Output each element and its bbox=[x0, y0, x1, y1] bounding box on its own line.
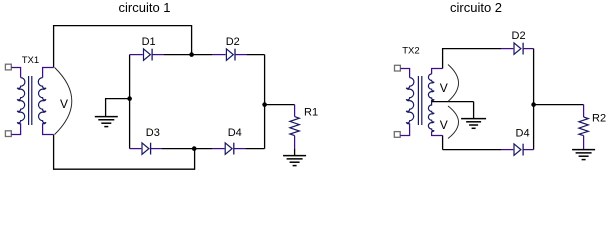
wire bottom rail c2 bbox=[442, 136, 444, 150]
diode D2 bbox=[212, 49, 247, 61]
wire TX1 secondary top pin bbox=[43, 68, 54, 78]
transformer TX2 bottom terminal bbox=[394, 132, 400, 138]
resistor R2 bbox=[579, 105, 588, 150]
node output c2 bbox=[531, 102, 536, 107]
node left (ground tap) bbox=[127, 96, 132, 101]
transformer TX1 bottom terminal bbox=[5, 131, 11, 137]
ground GND1 (bridge) bbox=[95, 117, 118, 127]
voltmeter V (circuit 1) arc bbox=[55, 68, 72, 135]
voltmeter V top (circuit 2) arc bbox=[448, 65, 459, 102]
transformer TX2 secondary top winding bbox=[428, 74, 434, 102]
wire to R2 bbox=[534, 104, 584, 106]
ground GND2 (under R1) bbox=[283, 149, 306, 166]
diode D3 bbox=[130, 143, 162, 155]
transformer TX1 core bbox=[28, 76, 30, 125]
svg-text:D2: D2 bbox=[226, 36, 240, 48]
svg-text:D3: D3 bbox=[146, 127, 160, 139]
resistor R1 bbox=[290, 105, 299, 149]
node bottom (AC input) bbox=[192, 146, 197, 151]
wire TX2 secondary top pin bbox=[432, 69, 443, 75]
svg-text:D2: D2 bbox=[512, 30, 526, 42]
transformer TX1 top terminal bbox=[5, 64, 11, 70]
wire bridge right vertical bbox=[264, 55, 266, 149]
transformer TX2 primary coil bbox=[406, 78, 414, 124]
svg-text:TX1: TX1 bbox=[22, 55, 39, 66]
ground GND4 (under R2) bbox=[572, 150, 595, 160]
diode D4 (c2) bbox=[501, 144, 534, 156]
svg-text:V: V bbox=[60, 97, 68, 111]
svg-text:circuito 1: circuito 1 bbox=[119, 0, 171, 15]
wire top rail c2 bbox=[443, 49, 501, 69]
transformer TX2 top terminal bbox=[395, 65, 401, 71]
svg-text:D4: D4 bbox=[228, 127, 242, 139]
ground GND3 (center tap) bbox=[461, 102, 486, 129]
node right (to R1) bbox=[262, 102, 267, 107]
wire D1 to node bbox=[164, 54, 192, 56]
wire node to D4 bbox=[195, 148, 212, 150]
svg-text:D1: D1 bbox=[142, 36, 156, 48]
wire TX2 top pin bbox=[400, 69, 409, 78]
voltmeter V bottom (circuit 2) arc bbox=[448, 106, 459, 139]
transformer TX1 primary coil bbox=[17, 78, 25, 124]
transformer TX2 core bbox=[417, 76, 419, 125]
wire TX2 bottom pin bbox=[400, 123, 409, 135]
diode D1 bbox=[130, 49, 164, 61]
wire to R1 bbox=[265, 104, 295, 106]
wire D4 to right vertical bbox=[245, 148, 264, 150]
node top (AC input) bbox=[189, 52, 194, 57]
wire right vertical c2 bbox=[533, 49, 535, 150]
wire TX1 secondary bottom pin bbox=[43, 123, 54, 134]
wire node to D2 bbox=[192, 54, 212, 56]
wire TX2 center tap bbox=[432, 101, 474, 103]
svg-text:V: V bbox=[440, 81, 448, 95]
transformer TX2 secondary bottom winding bbox=[428, 102, 434, 132]
svg-text:D4: D4 bbox=[516, 127, 530, 139]
wire to ground c1 bbox=[106, 99, 130, 117]
wire TX1 top pin bbox=[11, 68, 20, 78]
svg-text:V: V bbox=[440, 118, 448, 132]
svg-text:R2: R2 bbox=[592, 112, 606, 124]
wire bottom rail c1 bbox=[54, 135, 195, 170]
wire bridge left vertical bbox=[129, 55, 131, 149]
wire TX2 secondary bottom pin bbox=[432, 131, 443, 135]
svg-text:TX2: TX2 bbox=[402, 46, 419, 57]
wire TX1 bottom pin bbox=[11, 123, 20, 134]
wire D3 to node bbox=[162, 148, 195, 150]
wire top rail c1 bbox=[54, 26, 192, 68]
wire D2 to right vertical bbox=[247, 54, 265, 56]
transformer TX1 secondary coil bbox=[38, 78, 46, 124]
svg-text:circuito 2: circuito 2 bbox=[450, 0, 502, 15]
svg-text:R1: R1 bbox=[304, 106, 318, 118]
diode D4 bbox=[212, 143, 245, 155]
diode D2 (c2) bbox=[501, 43, 534, 55]
